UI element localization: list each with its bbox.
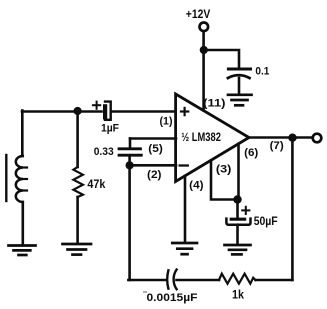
svg-text:1k: 1k <box>232 287 244 301</box>
svg-text:(5): (5) <box>148 143 163 155</box>
capacitor C 1uF left plate <box>103 106 107 117</box>
capacitor C 0.33 top plate <box>119 147 141 150</box>
capacitor C 0.1 curved bottom plate <box>228 75 250 78</box>
wire stub 0.33 cap to pin2 node <box>128 155 131 165</box>
wire supply node to 0.1 cap <box>204 50 239 68</box>
resistor R 1k <box>219 274 256 284</box>
inductor loop crossover nubs <box>23 166 27 168</box>
wire input top horizontal left segment <box>22 110 102 113</box>
svg-text:1µF: 1µF <box>101 123 119 135</box>
wire pin 5 <box>130 137 176 140</box>
capacitor C 0.0015uF right plate <box>174 270 177 290</box>
wire junction down to 47k <box>76 111 79 167</box>
svg-text:0.0015µF: 0.0015µF <box>147 292 198 304</box>
wire output from apex <box>249 136 313 139</box>
wire input top horizontal right segment to op-amp pin 1 <box>113 110 177 113</box>
capacitor C 1uF right bracket plate <box>105 102 111 120</box>
capacitor C 0.0015uF left plate <box>167 270 168 288</box>
svg-text:(2): (2) <box>147 169 162 181</box>
wire corner down to inductor <box>21 111 24 157</box>
wire pin 6 <box>237 144 240 200</box>
svg-text:(1): (1) <box>160 115 173 127</box>
wire terminal to pin 11 <box>202 32 205 111</box>
svg-text:(11): (11) <box>203 98 226 110</box>
svg-text:0.33: 0.33 <box>94 146 114 158</box>
svg-text:(6): (6) <box>244 147 259 159</box>
wire 0.1 cap to ground <box>238 78 241 94</box>
capacitor C 0.33 bottom plate <box>119 154 141 157</box>
svg-text:(4): (4) <box>189 179 204 191</box>
capacitor C 1uF plus sign <box>93 102 100 109</box>
ground below 50uF <box>225 245 251 254</box>
terminal output open circle <box>313 134 322 143</box>
wire output node down to feedback <box>291 138 294 280</box>
node junction output <box>288 134 296 142</box>
svg-text:47k: 47k <box>87 177 105 191</box>
ground below inductor <box>9 246 36 256</box>
wire pin 2 <box>130 164 176 167</box>
wire inductor bottom to ground <box>21 202 24 245</box>
capacitor C 50uF plus sign <box>242 207 249 214</box>
terminal +12V open circle <box>200 23 209 32</box>
node junction input <box>74 107 82 115</box>
wire pin 4 <box>184 176 187 242</box>
scan artifact dash above 0.0015uF label <box>144 291 147 293</box>
capacitor C 0.1 top plate <box>228 68 250 71</box>
wire 47k bottom to ground <box>76 197 79 243</box>
node junction pin 2 <box>126 161 134 169</box>
wire node to 50uF <box>236 200 239 219</box>
wire pin2 node down to feedback loop <box>128 165 131 280</box>
capacitor C 50uF top plate <box>231 218 244 221</box>
op-amp plus input symbol <box>181 108 188 115</box>
wire feedback middle segment <box>177 279 220 282</box>
capacitor C 50uF bracket bottom plate <box>226 219 250 225</box>
svg-text:50µF: 50µF <box>254 214 278 228</box>
svg-text:(3): (3) <box>216 163 232 175</box>
ground below pin 4 <box>172 243 197 254</box>
wire pin 3 <box>211 160 238 199</box>
svg-text:+12V: +12V <box>186 9 211 21</box>
ground below 0.1 cap <box>228 95 252 106</box>
wire 50uF to ground <box>236 225 239 244</box>
node junction supply <box>200 46 208 54</box>
ground below 47k <box>63 244 92 255</box>
svg-text:½ LM382: ½ LM382 <box>181 132 221 144</box>
wire feedback right segment <box>256 279 293 282</box>
svg-text:0.1: 0.1 <box>255 66 269 78</box>
inductor L1 coil loops <box>16 156 23 202</box>
resistor R 47k <box>73 167 83 197</box>
node junction pin3 pin6 <box>233 195 241 203</box>
svg-text:(7): (7) <box>270 140 284 152</box>
wire feedback bottom left segment <box>128 279 166 282</box>
inductor L1 core bar <box>5 155 7 201</box>
wire stub pin5 down to 0.33 cap <box>129 139 132 149</box>
op-amp minus input symbol <box>180 164 188 166</box>
op-amp U1 half LM382 triangle <box>176 94 249 182</box>
